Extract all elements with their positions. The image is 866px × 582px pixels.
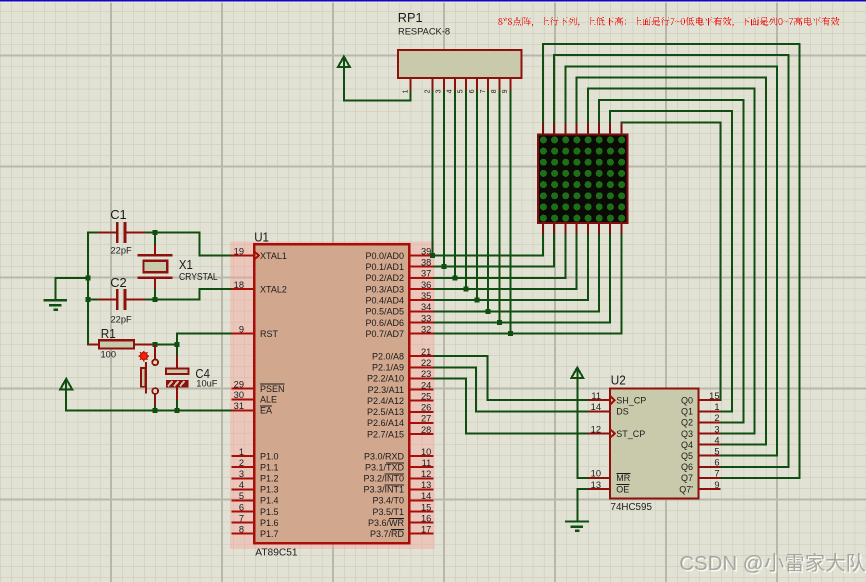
svg-text:Q4: Q4	[681, 440, 693, 450]
svg-text:1: 1	[239, 447, 244, 457]
U1 pin 26 (P2.5/A13)	[367, 403, 434, 418]
wire C4 to bottom rail	[176, 400, 178, 411]
svg-text:R1: R1	[101, 326, 116, 341]
U1 pin 8 (P1.7)	[232, 524, 279, 539]
svg-text:EA: EA	[260, 406, 272, 416]
U1 pin 3 (P1.2)	[232, 469, 279, 484]
svg-text:SH_CP: SH_CP	[616, 396, 646, 406]
node RP1-4/P0.2 junction	[452, 275, 457, 280]
U1 pin 12 (P3.2/INT0)	[363, 469, 433, 484]
wire C1 right to XTAL1	[145, 232, 232, 255]
svg-text:P2.4/A12: P2.4/A12	[367, 396, 404, 406]
svg-text:P0.3/AD3: P0.3/AD3	[365, 284, 404, 294]
U1 pin 23 (P2.2/A10)	[367, 369, 434, 384]
U1 pin 30 (ALE)	[232, 390, 278, 405]
svg-text:P0.1/AD1: P0.1/AD1	[365, 262, 404, 272]
svg-text:74HC595: 74HC595	[611, 502, 653, 513]
svg-text:10: 10	[591, 469, 601, 479]
U2 pin 5 (Q5)	[681, 447, 721, 462]
svg-text:2: 2	[239, 458, 244, 468]
wire RP1 pin 4 to P0.2	[454, 90, 456, 278]
U1 pin 11 (P3.1/TXD)	[365, 458, 434, 473]
svg-text:7: 7	[714, 469, 719, 479]
power symbol VCC (EA rail)	[60, 379, 72, 390]
wire RP1 pin 3 to P0.1	[443, 90, 445, 267]
svg-text:ST_CP: ST_CP	[616, 429, 645, 439]
U2 pin 3 (Q3)	[681, 424, 721, 439]
RP1 pin 4 stub	[447, 78, 455, 93]
svg-text:22: 22	[421, 358, 431, 368]
svg-text:P3.5/T1: P3.5/T1	[372, 507, 404, 517]
svg-text:35: 35	[421, 291, 431, 301]
svg-text:3: 3	[714, 424, 719, 434]
svg-text:9: 9	[714, 480, 719, 490]
RP1 pin 3 stub	[436, 78, 444, 93]
svg-text:11: 11	[422, 458, 432, 468]
wire button to bottom rail	[154, 406, 156, 411]
node button/rail junction	[153, 408, 158, 413]
svg-text:P2.2/A10: P2.2/A10	[367, 374, 404, 384]
svg-text:10uF: 10uF	[196, 378, 218, 388]
svg-text:Q7': Q7'	[679, 484, 693, 494]
svg-text:10: 10	[421, 447, 431, 457]
svg-text:21: 21	[421, 347, 431, 357]
node ground tee	[86, 276, 91, 281]
svg-text:RP1: RP1	[398, 10, 423, 25]
RP1 pin 8 stub	[491, 78, 499, 93]
power symbol VCC (U2)	[571, 368, 583, 379]
U1 pin 37 (P0.2/AD2)	[365, 269, 433, 284]
RP1 pin 7 stub	[480, 78, 488, 93]
svg-text:P2.1/A9: P2.1/A9	[372, 363, 404, 373]
matrix top pin 5 stub	[587, 123, 589, 134]
wire C1 left to vertical bus	[87, 231, 98, 233]
U1 pin 16 (P3.6/WR)	[368, 513, 434, 528]
matrix top pin 2 stub	[553, 123, 555, 134]
svg-text:39: 39	[421, 246, 431, 256]
U1 pin 9 (RST)	[232, 324, 279, 339]
U2 value label 74HC595	[611, 502, 653, 513]
wire matrix row pin 3 to U2 Q5	[565, 66, 777, 455]
svg-text:12: 12	[421, 469, 431, 479]
wire RP1 pin 9 to P0.7	[509, 90, 511, 334]
wire matrix row pin 8 to U2 Q0	[621, 122, 720, 400]
svg-text:P2.0/A8: P2.0/A8	[372, 352, 404, 362]
U1 selection highlight	[230, 241, 434, 549]
U1 pin 2 (P1.1)	[232, 458, 279, 473]
svg-text:16: 16	[421, 513, 431, 523]
svg-text:P1.7: P1.7	[260, 529, 279, 539]
svg-text:X1: X1	[179, 257, 193, 272]
svg-text:XTAL2: XTAL2	[260, 284, 287, 294]
wire C2 left to vertical bus	[87, 299, 98, 301]
U1 pin 28 (P2.7/A15)	[367, 425, 434, 440]
svg-text:32: 32	[421, 324, 431, 334]
svg-text:U1: U1	[254, 229, 269, 244]
svg-text:15: 15	[421, 502, 431, 512]
wire ground stub	[56, 278, 89, 300]
svg-text:P2.7/A15: P2.7/A15	[367, 429, 404, 439]
chip U1 body	[254, 244, 409, 543]
annotation text (red)	[498, 17, 839, 27]
svg-text:36: 36	[421, 280, 431, 290]
svg-text:P1.5: P1.5	[260, 507, 279, 517]
svg-text:XTAL1: XTAL1	[260, 251, 287, 261]
U2 label	[611, 373, 626, 388]
matrix top pin 1 stub	[542, 123, 544, 134]
U1 pin 36 (P0.3/AD3)	[365, 280, 433, 295]
svg-text:C1: C1	[110, 207, 127, 222]
capacitor C2	[99, 275, 145, 325]
svg-text:11: 11	[591, 391, 601, 401]
U1 pin 34 (P0.5/AD5)	[365, 302, 433, 317]
svg-text:6: 6	[714, 458, 719, 468]
svg-text:P0.7/AD7: P0.7/AD7	[365, 329, 404, 339]
svg-text:7: 7	[480, 89, 487, 93]
U1 pin 7 (P1.6)	[232, 513, 279, 528]
RP1 pin 5 stub	[458, 78, 466, 93]
svg-text:22pF: 22pF	[111, 315, 133, 325]
matrix top pin 4 stub	[576, 123, 578, 134]
svg-text:5: 5	[714, 447, 719, 457]
wire matrix column pin 7 to P0.6	[434, 234, 611, 323]
svg-text:25: 25	[421, 391, 431, 401]
capacitor C4	[166, 344, 218, 400]
matrix top pin 6 stub	[598, 123, 600, 134]
svg-text:P1.3: P1.3	[260, 485, 279, 495]
U1 pin 19 (XTAL1)	[232, 246, 287, 260]
svg-text:AT89C51: AT89C51	[255, 547, 298, 558]
svg-text:P0.4/AD4: P0.4/AD4	[365, 295, 404, 305]
U1 value label AT89C51	[255, 547, 298, 558]
svg-text:7: 7	[239, 513, 244, 523]
RP1 pin 1 stub	[402, 78, 410, 93]
U2 pin 1 (Q1)	[681, 402, 721, 417]
wire matrix row pin 7 to U2 Q1	[610, 111, 732, 411]
wire matrix column pin 6 to P0.5	[434, 234, 599, 311]
svg-text:P1.6: P1.6	[260, 518, 279, 528]
svg-text:37: 37	[421, 269, 431, 279]
svg-text:P0.0/AD0: P0.0/AD0	[365, 251, 404, 261]
wire P2.0 to U2 SH_CP	[434, 356, 588, 400]
svg-text:CRYSTAL: CRYSTAL	[179, 272, 218, 283]
svg-text:5: 5	[239, 491, 244, 501]
RP1 pin 6 stub	[469, 78, 477, 93]
svg-text:C2: C2	[110, 275, 127, 290]
svg-text:MR: MR	[616, 473, 630, 483]
LED dot-matrix body	[538, 134, 627, 222]
wire RP1 pin 7 to P0.5	[487, 90, 489, 311]
svg-text:P3.7/RD: P3.7/RD	[370, 529, 405, 539]
resistor pack RP1 body	[398, 50, 521, 78]
svg-text:5: 5	[458, 89, 465, 93]
wire matrix row pin 1 to U2 Q7	[543, 44, 800, 478]
svg-text:14: 14	[591, 402, 601, 412]
U2 pin 15 (Q0)	[681, 391, 721, 406]
svg-text:4: 4	[239, 480, 244, 490]
svg-text:6: 6	[469, 89, 476, 93]
U2 pin 14 (DS)	[588, 402, 629, 417]
svg-text:2: 2	[714, 413, 719, 423]
wire matrix column pin 5 to P0.4	[434, 234, 588, 300]
U1 pin 15 (P3.5/T1)	[372, 502, 433, 517]
svg-text:P3.1/TXD: P3.1/TXD	[365, 462, 405, 472]
U2 pin 12 (ST_CP)	[588, 424, 645, 439]
push button (reset)	[139, 344, 159, 405]
U1 pin 39 (P0.0/AD0)	[365, 246, 433, 260]
U1 pin 35 (P0.4/AD4)	[365, 291, 433, 306]
wire matrix row pin 5 to U2 Q3	[588, 89, 755, 434]
crystal X1	[138, 232, 219, 299]
node RP1-9/P0.7 junction	[508, 331, 513, 336]
matrix bottom pin 1 stub	[542, 223, 544, 234]
U2 pin 7 (Q7)	[681, 469, 721, 484]
svg-text:19: 19	[234, 246, 244, 256]
matrix bottom pin 4 stub	[576, 223, 578, 234]
U1 pin 38 (P0.1/AD1)	[365, 257, 433, 272]
wire P2.1 to U2 DS	[434, 367, 588, 411]
wire RP1 pin 2 to P0.0	[432, 90, 434, 256]
wire matrix column pin 2 to P0.1	[434, 234, 555, 267]
RP1 pin 2 stub	[424, 78, 432, 93]
node RP1-2/P0.0 junction	[430, 253, 435, 258]
svg-text:14: 14	[421, 491, 431, 501]
node RP1-3/P0.1 junction	[441, 264, 446, 269]
watermark CSDN	[679, 553, 866, 577]
svg-text:29: 29	[234, 379, 244, 389]
svg-text:CSDN @: CSDN @	[679, 553, 763, 575]
svg-text:34: 34	[421, 302, 431, 312]
svg-text:P0.6/AD6: P0.6/AD6	[365, 318, 404, 328]
svg-text:38: 38	[421, 257, 431, 267]
svg-text:P3.6/WR: P3.6/WR	[368, 518, 405, 528]
wire matrix row pin 6 to U2 Q2	[599, 100, 743, 423]
wire C2 right to XTAL2	[145, 289, 232, 300]
resistor pack RP1 label	[398, 10, 450, 37]
svg-text:Q7: Q7	[681, 473, 693, 483]
U1 pin 24 (P2.3/A11)	[368, 380, 434, 395]
svg-text:33: 33	[421, 313, 431, 323]
svg-text:12: 12	[591, 424, 601, 434]
resistor R1	[88, 326, 155, 359]
svg-text:8: 8	[239, 524, 244, 534]
wire RP1 pin1 to VCC	[344, 67, 411, 100]
U1 pin 21 (P2.0/A8)	[372, 347, 434, 362]
wire R1 to RST	[155, 334, 231, 345]
wire P2.2 to U2 ST_CP	[434, 378, 588, 433]
matrix bottom pin 3 stub	[564, 223, 566, 234]
svg-text:17: 17	[421, 524, 431, 534]
U2 pin 13 (OE)	[588, 480, 629, 495]
matrix bottom pin 2 stub	[553, 223, 555, 234]
svg-text:3: 3	[436, 89, 443, 93]
node RP1-7/P0.5 junction	[486, 309, 491, 314]
U1 pin 6 (P1.5)	[232, 502, 279, 517]
svg-text:4: 4	[447, 89, 454, 93]
U1 pin 32 (P0.7/AD7)	[365, 324, 433, 339]
U1 pin 14 (P3.4/T0)	[372, 491, 433, 506]
node RP1-8/P0.6 junction	[497, 320, 502, 325]
svg-text:P3.4/T0: P3.4/T0	[372, 496, 404, 506]
svg-text:P3.2/INT0: P3.2/INT0	[363, 474, 404, 484]
svg-text:P1.1: P1.1	[260, 462, 279, 472]
node R1/button junction	[153, 342, 158, 347]
svg-text:2: 2	[424, 89, 431, 93]
wire matrix column pin 8 to P0.7	[434, 234, 622, 334]
svg-text:PSEN: PSEN	[260, 384, 285, 394]
matrix top pin 7 stub	[609, 123, 611, 134]
matrix top pin 3 stub	[564, 123, 566, 134]
matrix bottom pin 7 stub	[609, 223, 611, 234]
U1 pin 22 (P2.1/A9)	[372, 358, 434, 373]
U2 pin 4 (Q4)	[681, 435, 721, 450]
svg-text:RESPACK-8: RESPACK-8	[398, 27, 450, 37]
ground (below U2)	[565, 522, 589, 531]
U1 pin 18 (XTAL2)	[232, 280, 287, 295]
wire U2 OE to ground	[577, 489, 588, 521]
U1 pin 31 (EA)	[232, 401, 273, 416]
svg-text:30: 30	[234, 390, 244, 400]
U2 pin 11 (SH_CP)	[588, 391, 646, 406]
U2 pin 2 (Q2)	[681, 413, 721, 428]
U1 pin 5 (P1.4)	[232, 491, 279, 506]
svg-text:P0.5/AD5: P0.5/AD5	[365, 307, 404, 317]
svg-text:6: 6	[239, 502, 244, 512]
U1 pin 13 (P3.3/INT1)	[363, 480, 433, 495]
U1 pin 33 (P0.6/AD6)	[365, 313, 433, 328]
svg-text:1: 1	[714, 402, 719, 412]
svg-text:Q5: Q5	[681, 451, 693, 461]
node C2/X1 junction	[153, 297, 158, 302]
node C4/rail junction	[175, 408, 180, 413]
svg-text:P2.5/A13: P2.5/A13	[367, 407, 404, 417]
svg-text:P2.3/A11: P2.3/A11	[368, 385, 404, 395]
svg-text:Q6: Q6	[681, 462, 693, 472]
svg-text:27: 27	[421, 414, 431, 424]
svg-text:P1.2: P1.2	[260, 474, 279, 484]
svg-text:P3.0/RXD: P3.0/RXD	[364, 451, 405, 461]
svg-text:U2: U2	[611, 373, 626, 388]
svg-text:4: 4	[714, 435, 719, 445]
svg-text:1: 1	[402, 89, 409, 93]
wire VCC to U2 MR	[577, 378, 588, 478]
U2 pin 9 (Q7')	[679, 480, 720, 495]
U2 pin 6 (Q6)	[681, 458, 721, 473]
U1 pin 25 (P2.4/A12)	[367, 391, 434, 406]
wire matrix row pin 2 to U2 Q6	[554, 55, 788, 467]
node RP1-5/P0.3 junction	[464, 286, 469, 291]
svg-text:22pF: 22pF	[111, 246, 133, 256]
U1 pin 29 (PSEN)	[232, 379, 285, 394]
svg-text:Q3: Q3	[681, 429, 693, 439]
node C1/X1 junction	[153, 230, 158, 235]
wire EA bottom rail	[66, 389, 231, 410]
svg-text:OE: OE	[616, 484, 629, 494]
svg-text:Q0: Q0	[681, 396, 693, 406]
matrix bottom pin 5 stub	[587, 223, 589, 234]
power symbol VCC (RP1)	[338, 57, 350, 68]
wire matrix column pin 3 to P0.2	[434, 234, 566, 278]
wire RP1 pin 5 to P0.3	[465, 90, 467, 289]
svg-text:ALE: ALE	[260, 395, 277, 405]
svg-text:24: 24	[421, 380, 431, 390]
svg-text:DS: DS	[616, 407, 629, 417]
svg-text:P1.0: P1.0	[260, 451, 279, 461]
svg-text:9: 9	[239, 324, 244, 334]
svg-text:15: 15	[709, 391, 719, 401]
svg-text:9: 9	[502, 89, 509, 93]
RP1 pin 9 stub	[502, 78, 510, 93]
svg-text:13: 13	[591, 480, 601, 490]
node RP1-6/P0.4 junction	[475, 298, 480, 303]
svg-text:100: 100	[101, 350, 117, 360]
wire matrix column pin 4 to P0.3	[434, 234, 577, 289]
U1 label	[254, 229, 269, 244]
matrix bottom pin 8 stub	[620, 223, 622, 234]
svg-text:P3.3/INT1: P3.3/INT1	[363, 485, 404, 495]
wire matrix row pin 4 to U2 Q4	[577, 78, 766, 445]
wire RP1 pin 8 to P0.6	[498, 90, 500, 322]
U1 pin 17 (P3.7/RD)	[370, 524, 434, 539]
node C2/bus junction	[86, 297, 91, 302]
svg-text:8: 8	[491, 89, 498, 93]
chip U2 body	[610, 388, 699, 498]
svg-text:23: 23	[421, 369, 431, 379]
matrix bottom pin 6 stub	[598, 223, 600, 234]
U1 pin 1 (P1.0)	[232, 447, 279, 462]
svg-text:Q1: Q1	[681, 407, 693, 417]
U2 pin 10 (MR)	[588, 469, 631, 484]
U1 pin 10 (P3.0/RXD)	[364, 447, 434, 462]
matrix top pin 8 stub	[620, 123, 622, 134]
svg-text:26: 26	[421, 403, 431, 413]
svg-text:31: 31	[234, 401, 244, 411]
svg-text:28: 28	[421, 425, 431, 435]
svg-text:P0.2/AD2: P0.2/AD2	[365, 273, 404, 283]
U1 pin 27 (P2.6/A14)	[367, 414, 434, 429]
wire RP1 pin 6 to P0.4	[476, 90, 478, 300]
svg-text:18: 18	[234, 280, 244, 290]
U1 pin 4 (P1.3)	[232, 480, 279, 495]
svg-text:Q2: Q2	[681, 418, 693, 428]
svg-text:13: 13	[421, 480, 431, 490]
svg-text:P1.4: P1.4	[260, 496, 279, 506]
svg-text:RST: RST	[260, 329, 279, 339]
capacitor C1	[99, 207, 145, 256]
wire left vertical bus C1-C2-R1	[87, 231, 89, 345]
node R1/C4 junction	[175, 342, 180, 347]
svg-text:P2.6/A14: P2.6/A14	[367, 418, 404, 428]
ground (left)	[43, 300, 67, 309]
svg-text:3: 3	[239, 469, 244, 479]
wire matrix column pin 1 to P0.0	[434, 234, 543, 256]
